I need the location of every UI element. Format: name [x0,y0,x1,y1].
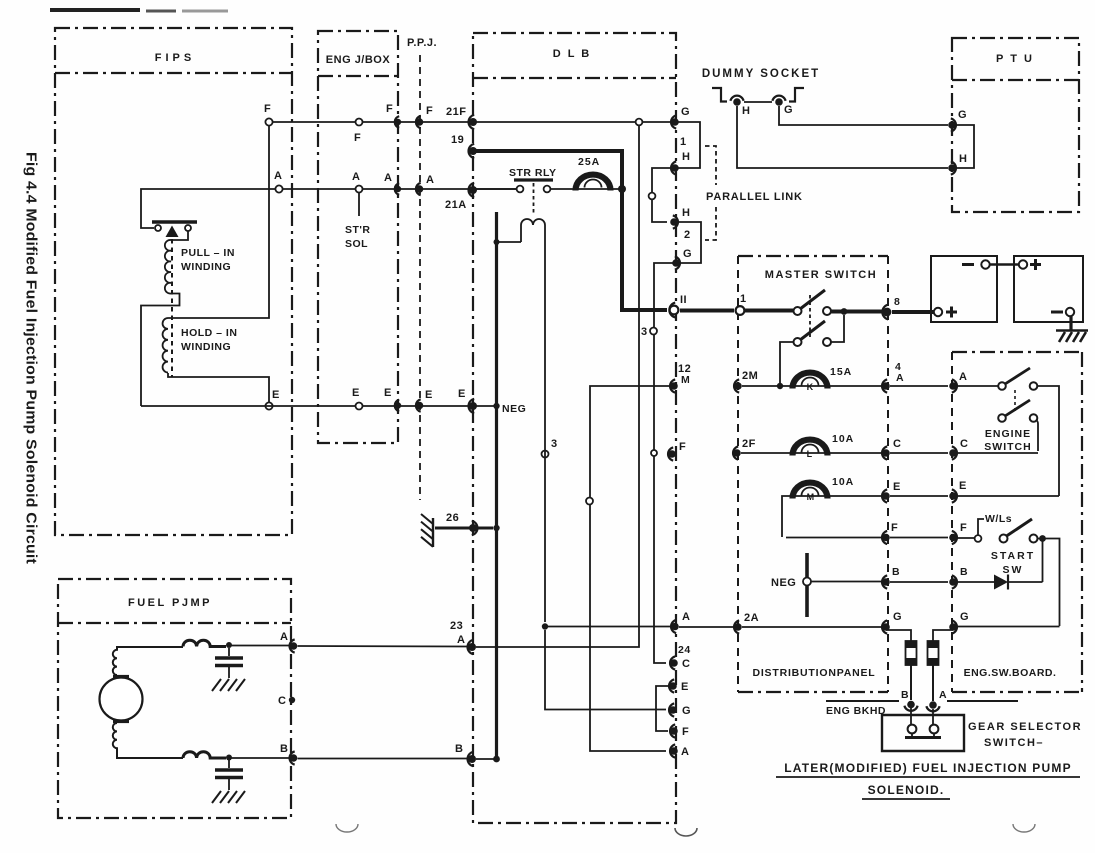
connector G (parallel link 2) [675,256,680,269]
engine switch pole2 right contact [1030,414,1038,422]
svg-text:A: A [457,634,465,646]
NEG terminal circle [803,578,811,586]
svg-text:E: E [425,389,433,401]
small terminal circle on line [651,450,657,456]
wire H to H via circle [652,168,672,222]
terminal 3 (lower) [542,451,549,458]
FIPS terminal E [265,402,272,409]
svg-text:START: START [991,550,1035,562]
connector 23 A (DLB edge) [468,640,474,654]
connector G (sw board edge) [952,620,957,633]
master switch pole2 blade [800,321,825,340]
svg-text:D L B: D L B [553,48,592,60]
svg-text:3: 3 [641,326,648,338]
motor lead top coil [113,647,183,675]
dummy socket bracket left [712,88,727,102]
connector A (sw board edge) [952,379,957,392]
wire diode to start sw [1008,581,1043,583]
wire F to W/Ls [957,537,974,539]
svg-text:C: C [893,438,901,450]
svg-text:A: A [896,372,904,384]
svg-text:A: A [426,174,434,186]
dummy socket terminal H [730,96,743,101]
svg-text:G: G [682,705,691,717]
svg-text:DISTRIBUTIONPANEL: DISTRIBUTIONPANEL [752,667,875,679]
wire C row to engine switch [957,452,1038,454]
wire 21A to relay contact [476,188,516,190]
wire 2M row (K fuse) [742,385,882,387]
motor body [100,678,143,721]
connector H (parallel link 1) [671,161,676,174]
svg-text:FUEL PJMP: FUEL PJMP [128,597,212,609]
wire x545 down to G row [545,630,666,710]
terminal 11 (DLB edge) [669,303,675,318]
svg-text:E: E [272,389,280,401]
wire PTU G-H link [956,125,974,168]
svg-text:E: E [681,681,689,693]
svg-text:DUMMY SOCKET: DUMMY SOCKET [702,68,820,80]
wire battery link [990,263,1019,266]
wire B to B [890,581,948,583]
svg-text:A: A [682,611,690,623]
ground symbol capacitor B [212,791,221,803]
START SW blade [1007,519,1033,536]
connector H (PTU edge) [951,161,956,174]
fuse L 10A [793,440,828,456]
wire F fuse row [786,537,882,539]
gear selector switch box [882,715,964,751]
connector B (panel edge) [882,575,887,588]
connector H (parallel link 2) [673,215,678,228]
svg-text:B: B [960,566,968,578]
PARALLEL LINK callout bracket [705,146,716,185]
connector E (ppj) [416,399,421,411]
battery 2 box [1014,256,1083,322]
svg-text:2M: 2M [742,370,758,382]
connector E (panel edge) [882,489,887,502]
connector F (panel edge) [882,531,887,544]
svg-text:25A: 25A [578,156,600,168]
ENG BKHD line [826,700,899,702]
terminal circle x590 [586,498,593,505]
svg-text:H: H [742,105,750,117]
svg-text:A: A [352,171,360,183]
pull-in winding coil [165,231,188,294]
battery1 plus terminal [934,308,942,316]
svg-text:W/Ls: W/Ls [985,513,1012,525]
svg-text:HOLD – IN: HOLD – IN [181,327,237,339]
fuse M 10A [793,483,828,499]
wire to fuel pump A terminal [231,645,289,647]
fuse K 15A [793,373,828,389]
svg-text:3: 3 [551,438,558,450]
junction dot start sw [1039,535,1046,542]
STR RLY coil [521,219,545,280]
master switch ganged link dashed [809,295,811,337]
thick wire 19 to terminal 11 [475,151,667,310]
connector 12M (DLB edge) [670,379,675,392]
battery1 minus terminal [962,263,974,266]
gear selector contact left [908,725,917,734]
connector F (DLB edge lower) [670,724,675,737]
wire B to diode [957,581,994,583]
FIPS enclosure box [55,28,292,535]
svg-text:L: L [807,449,813,459]
DLB enclosure box [473,33,676,823]
engine switch pole2 left contact [998,414,1006,422]
wire to fuel pump B terminal [231,757,289,759]
svg-text:C: C [278,695,286,707]
wire dummy G to PTU G [779,106,948,125]
connector E (DLB edge) [669,679,674,692]
relay coil right leg down [544,280,546,622]
connector C (sw board edge) [952,446,957,459]
junction circle parallel link [649,193,656,200]
svg-text:NEG: NEG [502,403,526,415]
connector B (DLB edge lower) [468,752,474,766]
wire fuel pump B row [298,758,469,760]
svg-text:23: 23 [450,620,463,632]
svg-text:A: A [280,631,288,643]
connector A (DLB edge) [671,620,676,633]
connector 19 (DLB edge) [469,144,475,158]
wire E row right [957,495,1059,497]
wire G to H (link 1) [678,122,700,168]
master switch pole1 right contact [823,307,831,315]
capacitor A [228,648,230,656]
junction dot 25A row [618,185,626,193]
svg-text:ENG J/BOX: ENG J/BOX [326,54,391,66]
wire fuse link left down [910,665,912,700]
connector E (sw board edge) [952,489,957,502]
connector 24 C (DLB edge) [670,656,675,669]
svg-text:G: G [683,248,692,260]
wire pole2 right to thick row [831,315,844,342]
svg-text:10A: 10A [832,433,854,445]
FIPS terminal F [265,118,272,125]
svg-text:PARALLEL LINK: PARALLEL LINK [706,191,803,203]
wire M fuse row [782,496,882,537]
engine switch ganged link dashed [1014,390,1016,414]
svg-text:E: E [959,480,967,492]
svg-text:ENG BKHD: ENG BKHD [826,705,886,717]
master switch pole2 right contact [823,338,831,346]
wire 2A to G [742,626,882,628]
motor brush top [113,675,129,678]
svg-text:STR RLY: STR RLY [509,167,556,179]
wire A row [282,188,518,190]
solenoid terminal left [155,225,161,231]
terminal 3 (upper) [650,328,657,335]
terminal 1 (master switch) [736,306,745,315]
connector A (ppj) [416,183,421,195]
svg-text:21A: 21A [445,199,467,211]
ENG J/BOX enclosure box [318,31,398,443]
svg-text:E: E [458,388,466,400]
fuse link right [928,641,939,665]
master switch pole1 blade [800,290,825,309]
junction ENG J/BOX E [356,403,363,410]
ground symbol capacitor A [212,679,221,691]
connector 26 (DLB edge) [472,521,478,535]
wire engine switch to E row [1038,386,1060,496]
svg-text:SWITCH: SWITCH [984,441,1031,453]
svg-text:SOL: SOL [345,238,368,250]
svg-text:E: E [893,481,901,493]
svg-text:G: G [681,106,690,118]
connector 21A (DLB edge) [469,183,475,197]
scan artifact top edge [50,8,140,12]
svg-text:G: G [784,104,793,116]
wire start sw to G row [1038,539,1060,627]
svg-text:1: 1 [680,136,687,148]
wire relay to 25A fuse [550,188,620,190]
STR RLY contact circle left [517,186,524,193]
wire 12M left down to A(bottom) [590,386,670,751]
svg-text:F: F [426,105,433,117]
connector E (eng j/box edge) [395,400,399,412]
ground symbol battery [1056,329,1088,331]
thick wire 1 to master switch [744,309,794,313]
STR RLY contact bar [514,178,553,181]
wire ground to 26 [435,527,493,530]
svg-text:A: A [959,371,967,383]
FIPS terminal A [275,185,282,192]
battery2 plus terminal [1019,260,1027,268]
W/Ls terminal [975,535,982,542]
wire A into gear selector [932,709,934,725]
wire G to fuse link left [886,630,911,641]
svg-text:1: 1 [740,293,747,305]
svg-text:26: 26 [446,512,459,524]
svg-text:FIPS: FIPS [155,52,195,64]
connector 2F (panel edge) [733,446,738,459]
inductor A line [183,640,226,646]
svg-text:B: B [455,743,463,755]
wire H-G link [744,101,772,103]
thick wire to terminal 8 [831,310,883,314]
connector C (panel edge) [882,446,887,459]
svg-text:B: B [901,689,909,701]
solenoid armature bar [152,220,197,224]
gear selector link bar [905,736,941,739]
svg-text:ST'R: ST'R [345,224,371,236]
MASTER SWITCH / DISTRIBUTION PANEL enclosure box [738,255,888,257]
wire 4A to A [890,385,948,387]
svg-text:21F: 21F [446,106,466,118]
wire A row (2A) from x545 [545,626,670,628]
svg-text:P.P.J.: P.P.J. [407,37,437,49]
svg-text:2: 2 [684,229,691,241]
junction dot NEG bottom [493,756,500,763]
svg-text:H: H [682,207,690,219]
svg-text:SWITCH–: SWITCH– [984,737,1044,749]
hold-in winding coil [163,318,168,372]
solenoid core dashed line [171,239,173,377]
dummy socket bracket right [789,88,804,102]
connector A (eng j/box edge) [395,183,399,195]
svg-text:8: 8 [894,296,900,308]
junction dot cap A [226,642,232,648]
bracket E-G-F connectors [656,686,668,731]
svg-text:2F: 2F [742,438,756,450]
connector G (PTU edge) [951,118,956,131]
svg-text:ENG.SW.BOARD.: ENG.SW.BOARD. [964,667,1057,679]
engine switch pole1 left contact [998,382,1006,390]
engine switch pole2 blade [1005,400,1030,416]
svg-text:PULL – IN: PULL – IN [181,247,235,259]
connector B (fuel pump edge) [290,751,295,764]
connector G (panel edge) [882,620,887,633]
terminal B (eng bkhd) [904,706,917,711]
svg-text:A: A [939,689,947,701]
ENG SW BOARD enclosure box [952,351,1082,353]
wire vertical from F-row to fuel pump row [476,125,639,647]
wire hold-in bottom to E terminal [168,373,269,406]
connector B (sw board edge) [952,575,957,588]
motor brush bottom [113,720,129,723]
svg-text:F: F [960,522,967,534]
svg-text:M: M [807,492,815,502]
connector F (eng j/box edge) [395,116,399,128]
PTU enclosure box [952,38,1079,212]
svg-text:NEG: NEG [771,577,796,589]
connector F (ppj) [416,116,421,128]
junction dot cap B [226,755,232,761]
svg-text:F: F [891,522,898,534]
wire dummy H to PTU H [737,106,948,168]
ground symbol 26 [432,518,434,547]
svg-text:B: B [892,566,900,578]
wire H to G (link 2) [677,222,701,263]
svg-text:19: 19 [451,134,464,146]
thick wire 8 to battery [892,310,935,314]
connector E (DLB edge) [469,399,475,413]
svg-text:H: H [959,153,967,165]
thick wire 11 to 1 [680,309,734,313]
svg-text:Fig 4.4 Modified Fuel Injectio: Fig 4.4 Modified Fuel Injection Pump Sol… [23,152,40,564]
junction dot 2M row [777,383,783,389]
connector G (DLB edge) [669,703,674,716]
master switch pole1 left contact [794,307,802,315]
svg-text:C: C [682,658,690,670]
svg-text:GEAR SELECTOR: GEAR SELECTOR [968,721,1082,733]
scan artifact bottom arcs [336,824,358,832]
svg-text:B: B [280,743,288,755]
svg-text:24: 24 [678,644,691,656]
svg-text:F: F [679,441,686,453]
fuse link left [906,641,917,665]
svg-text:A: A [681,746,689,758]
START SW pivot contact [1000,535,1008,543]
engine switch pole1 right contact [1030,382,1038,390]
svg-text:A: A [384,172,392,184]
svg-text:P T U: P T U [996,53,1034,65]
engine switch pole1 blade [1005,368,1030,384]
wire fuse link right down [932,665,934,701]
svg-text:MASTER SWITCH: MASTER SWITCH [765,269,877,281]
STR RLY contact circle right [544,186,551,193]
wire G to fuse link right [933,630,953,641]
wire 2F row (L fuse) [741,452,882,454]
svg-text:SOLENOID.: SOLENOID. [868,783,945,797]
svg-text:H: H [682,151,690,163]
svg-text:F: F [354,132,361,144]
svg-text:F: F [682,726,689,738]
svg-text:G: G [958,109,967,121]
svg-text:2A: 2A [744,612,759,624]
wire F to F [890,537,948,539]
START SW right contact [1030,535,1038,543]
svg-text:K: K [807,382,814,392]
svg-text:II: II [680,294,687,306]
svg-text:SW: SW [1003,564,1024,576]
svg-text:WINDING: WINDING [181,261,231,273]
battery2 minus terminal [1051,311,1063,314]
FUEL PUMP enclosure box [58,579,291,818]
connector 2A (panel edge) [734,620,739,633]
wire C to C [890,452,948,454]
wire pole2 left down to 2M row [780,342,794,383]
svg-text:ENGINE: ENGINE [985,428,1031,440]
NEG bar (B row) [805,553,809,617]
connector F (sw board edge) [952,531,957,544]
svg-text:G: G [893,611,902,623]
wire NEG to B [811,581,882,583]
terminal A (eng bkhd) [926,706,939,711]
wire fuel pump A row [298,645,469,648]
capacitor B [228,760,230,768]
wire A-row into solenoid [141,189,279,228]
wire F-row down to hold-in winding [168,124,269,318]
svg-text:15A: 15A [830,366,852,378]
battery 1 box [931,256,997,322]
wire B into gear selector [910,708,912,725]
svg-text:F: F [264,103,271,115]
motor lead bottom coil [113,723,183,758]
junction dot NEG at 26 row [493,525,499,531]
P.P.J. boundary line [419,55,421,500]
svg-text:M: M [681,374,690,386]
svg-text:A: A [274,170,282,182]
solenoid terminal right [185,225,191,231]
wire E row [141,405,495,407]
NEG vertical line [495,212,498,762]
wire relay coil to NEG line [496,241,521,243]
junction ENG J/BOX A [356,186,363,193]
dummy socket terminal G [772,96,785,101]
wire battery2 to ground [1069,316,1072,330]
solenoid arrow [166,226,179,238]
svg-text:10A: 10A [832,476,854,488]
terminal C (fuel pump) [289,697,295,703]
junction dot NEG at E row [493,403,499,409]
STR RLY actuator dashed link [533,183,535,215]
connector 4 A (panel edge) [882,379,887,392]
wire E to E [890,495,948,497]
wire engine switch pole2 to C row [1036,420,1038,451]
connector 21F (DLB edge) [469,115,475,129]
wire G row right [957,626,1060,628]
junction ENG J/BOX F [356,119,363,126]
svg-text:G: G [960,611,969,623]
wire F row [272,121,671,123]
svg-text:E: E [384,387,392,399]
connector A (fuel pump edge) [290,639,295,652]
wire from parallel link G down to 24C [654,263,673,663]
connector 8 (panel edge) [882,305,888,320]
wire start sw down to diode [1042,541,1044,582]
